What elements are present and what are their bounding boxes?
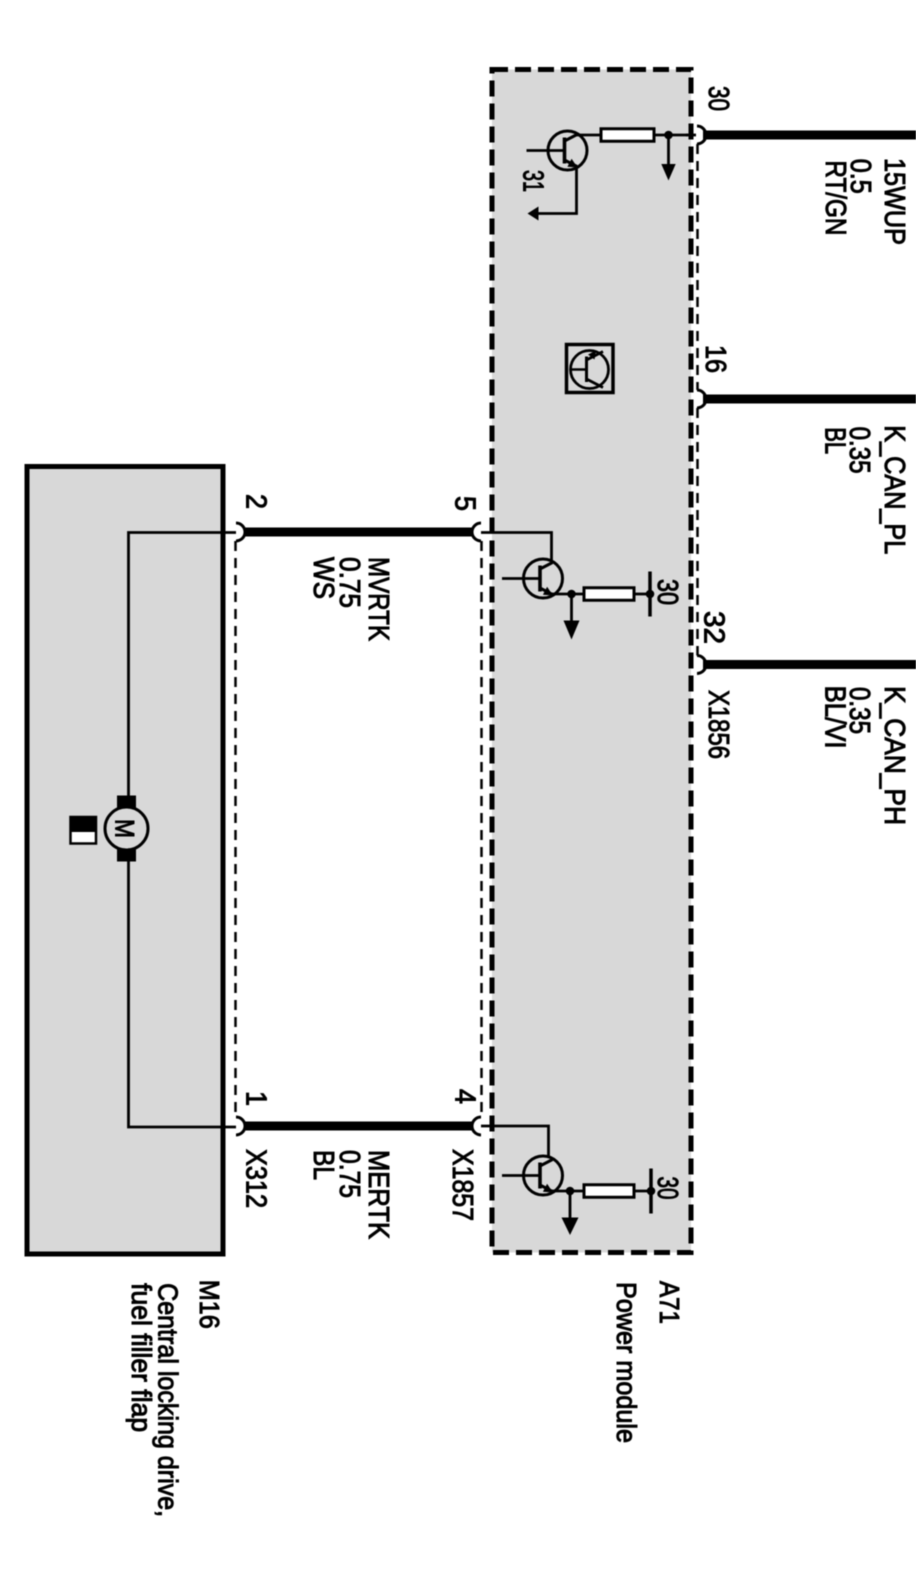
junction dot at terminal 30 (middle) xyxy=(646,590,655,599)
emitter wire of Q3 to resistor R3 xyxy=(552,1190,584,1193)
transistor Q1 xyxy=(527,131,588,170)
ground arrow from Q3 emitter junction xyxy=(562,1187,579,1235)
power module A71 box xyxy=(492,70,691,1253)
svg-text:WS: WS xyxy=(307,557,339,599)
transistor Q3 xyxy=(502,1156,563,1195)
svg-text:MVRTK: MVRTK xyxy=(362,557,394,642)
arrow to ground from junction xyxy=(661,135,675,181)
connector X1856 dashed link line (lower) xyxy=(696,408,699,656)
emitter wire of Q1 to terminal 31 arrow xyxy=(528,167,577,221)
wire MERTK xyxy=(244,1122,473,1131)
connector X1857 dashed link line xyxy=(480,541,483,1117)
motor M16: body circle xyxy=(105,807,148,850)
wire pin 5 to transistor Q2 collector xyxy=(481,533,552,561)
connector pin 30 of X1856 xyxy=(697,126,706,144)
connector pin 2 of X312 xyxy=(236,523,245,541)
svg-text:M: M xyxy=(110,819,140,838)
svg-text:BL: BL xyxy=(307,1150,339,1180)
svg-text:31: 31 xyxy=(517,170,549,192)
junction node on wire 30 xyxy=(664,131,673,140)
wire pin 2 to motor M16 xyxy=(129,533,237,796)
wire motor to pin 1 xyxy=(129,862,237,1128)
terminal 30 end bar (middle) xyxy=(648,572,652,617)
svg-text:16: 16 xyxy=(699,345,731,373)
wire stub pin 30 into module xyxy=(686,134,696,137)
svg-text:A71: A71 xyxy=(654,1281,685,1324)
junction dot at terminal 30 (bottom) xyxy=(647,1187,656,1196)
svg-text:5: 5 xyxy=(449,496,481,511)
connector pin 4 of X1857 xyxy=(472,1117,481,1135)
svg-text:2: 2 xyxy=(240,494,272,509)
svg-text:30: 30 xyxy=(651,1177,683,1200)
svg-text:fuel filler flap: fuel filler flap xyxy=(126,1283,157,1432)
emitter wire of Q2 to resistor R2 xyxy=(552,593,584,596)
terminal 30 end bar (bottom) xyxy=(649,1169,653,1214)
connector X1856 dashed link line (upper) xyxy=(696,144,699,390)
wire K_CAN_PH bus (pin 32) xyxy=(703,660,916,669)
wire MVRTK xyxy=(244,528,473,537)
wire 15WUP bus (terminal 30) xyxy=(703,131,916,140)
svg-text:BL/VI: BL/VI xyxy=(819,686,851,749)
svg-text:K_CAN_PH: K_CAN_PH xyxy=(878,686,910,825)
wire R2 to terminal 30 bar xyxy=(634,593,650,596)
connector pin 32 of X1856 xyxy=(697,656,706,674)
mechanical actuator symbol next to motor xyxy=(71,817,97,844)
motor M16: brush blocks xyxy=(117,796,136,809)
svg-text:Power module: Power module xyxy=(611,1282,642,1443)
svg-text:1: 1 xyxy=(240,1091,272,1106)
svg-text:X1857: X1857 xyxy=(446,1149,478,1221)
connector pin 1 of X312 xyxy=(236,1117,245,1135)
svg-text:15WUP: 15WUP xyxy=(878,158,910,245)
svg-text:30: 30 xyxy=(651,579,683,605)
ground arrow from Q2 emitter junction xyxy=(564,590,580,640)
resistor R3 xyxy=(584,1185,634,1198)
wire K_CAN_PL bus (pin 16) xyxy=(703,395,916,404)
M16 device box xyxy=(27,467,223,1255)
wire R3 to terminal 30 bar xyxy=(634,1190,651,1193)
connector pin 5 of X1857 xyxy=(472,523,481,541)
connector pin 16 of X1856 xyxy=(697,390,706,408)
svg-text:30: 30 xyxy=(702,86,734,111)
electronic switch symbol U1 (boxed transistor) xyxy=(567,345,614,393)
svg-text:4: 4 xyxy=(449,1089,481,1104)
svg-text:MERTK: MERTK xyxy=(362,1150,394,1240)
connector X312 dashed link line xyxy=(234,541,237,1117)
svg-text:32: 32 xyxy=(698,611,730,644)
svg-text:M16: M16 xyxy=(194,1280,225,1329)
wire pin 4 to transistor Q3 collector xyxy=(481,1126,549,1157)
svg-text:K_CAN_PL: K_CAN_PL xyxy=(878,425,910,554)
transistor Q2 xyxy=(502,559,563,598)
svg-text:BL: BL xyxy=(819,427,851,454)
resistor R1 xyxy=(601,129,654,142)
svg-text:X312: X312 xyxy=(240,1149,272,1208)
resistor R2 xyxy=(584,588,634,601)
wire from transistor Q1 to pin 30 xyxy=(576,134,601,137)
svg-text:X1856: X1856 xyxy=(702,690,734,759)
svg-text:RT/GN: RT/GN xyxy=(819,160,851,235)
